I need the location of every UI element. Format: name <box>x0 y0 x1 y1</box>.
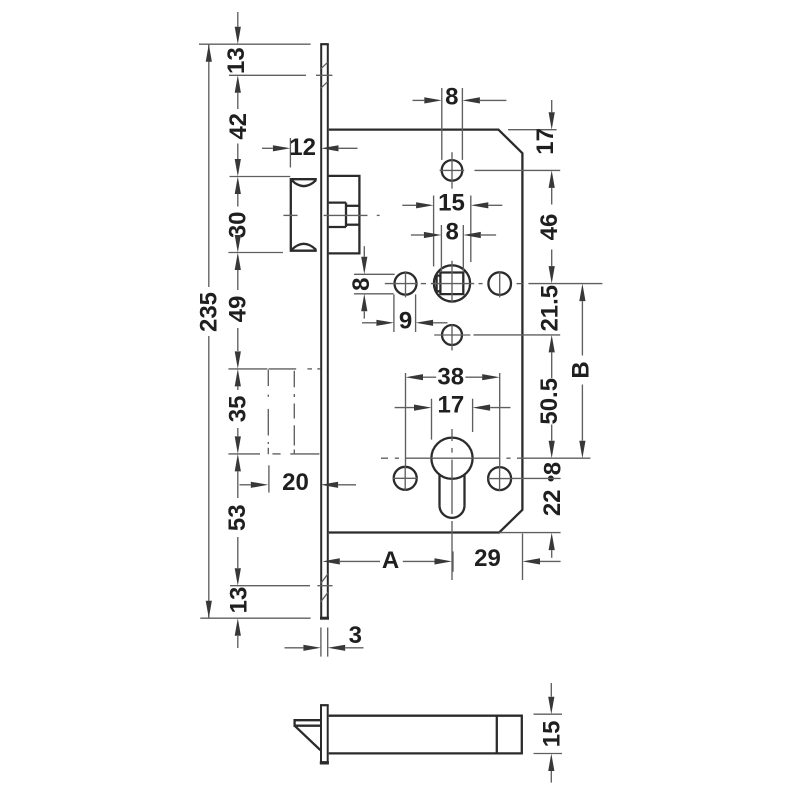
svg-text:13: 13 <box>226 587 253 614</box>
svg-text:29: 29 <box>474 545 501 572</box>
svg-text:235: 235 <box>196 292 223 332</box>
svg-text:22: 22 <box>539 489 566 516</box>
svg-text:12: 12 <box>289 134 316 161</box>
svg-text:B: B <box>568 361 595 378</box>
svg-text:A: A <box>382 547 399 574</box>
svg-text:8: 8 <box>446 218 459 245</box>
svg-text:50.5: 50.5 <box>536 378 563 425</box>
svg-text:17: 17 <box>532 128 559 155</box>
svg-text:21.5: 21.5 <box>537 285 564 332</box>
svg-text:30: 30 <box>224 211 251 238</box>
svg-text:38: 38 <box>437 364 464 391</box>
svg-text:8: 8 <box>445 84 458 111</box>
svg-text:49: 49 <box>224 296 251 323</box>
svg-text:17: 17 <box>438 392 465 419</box>
svg-text:46: 46 <box>536 214 563 241</box>
svg-text:35: 35 <box>224 396 251 423</box>
svg-text:8: 8 <box>540 462 567 475</box>
svg-text:13: 13 <box>223 47 250 74</box>
svg-text:20: 20 <box>282 469 309 496</box>
svg-text:15: 15 <box>438 190 465 217</box>
svg-text:42: 42 <box>225 113 252 140</box>
svg-text:3: 3 <box>349 622 362 649</box>
svg-text:15: 15 <box>538 721 565 748</box>
svg-text:9: 9 <box>399 307 412 334</box>
svg-text:53: 53 <box>224 504 251 531</box>
svg-text:8: 8 <box>348 278 375 291</box>
